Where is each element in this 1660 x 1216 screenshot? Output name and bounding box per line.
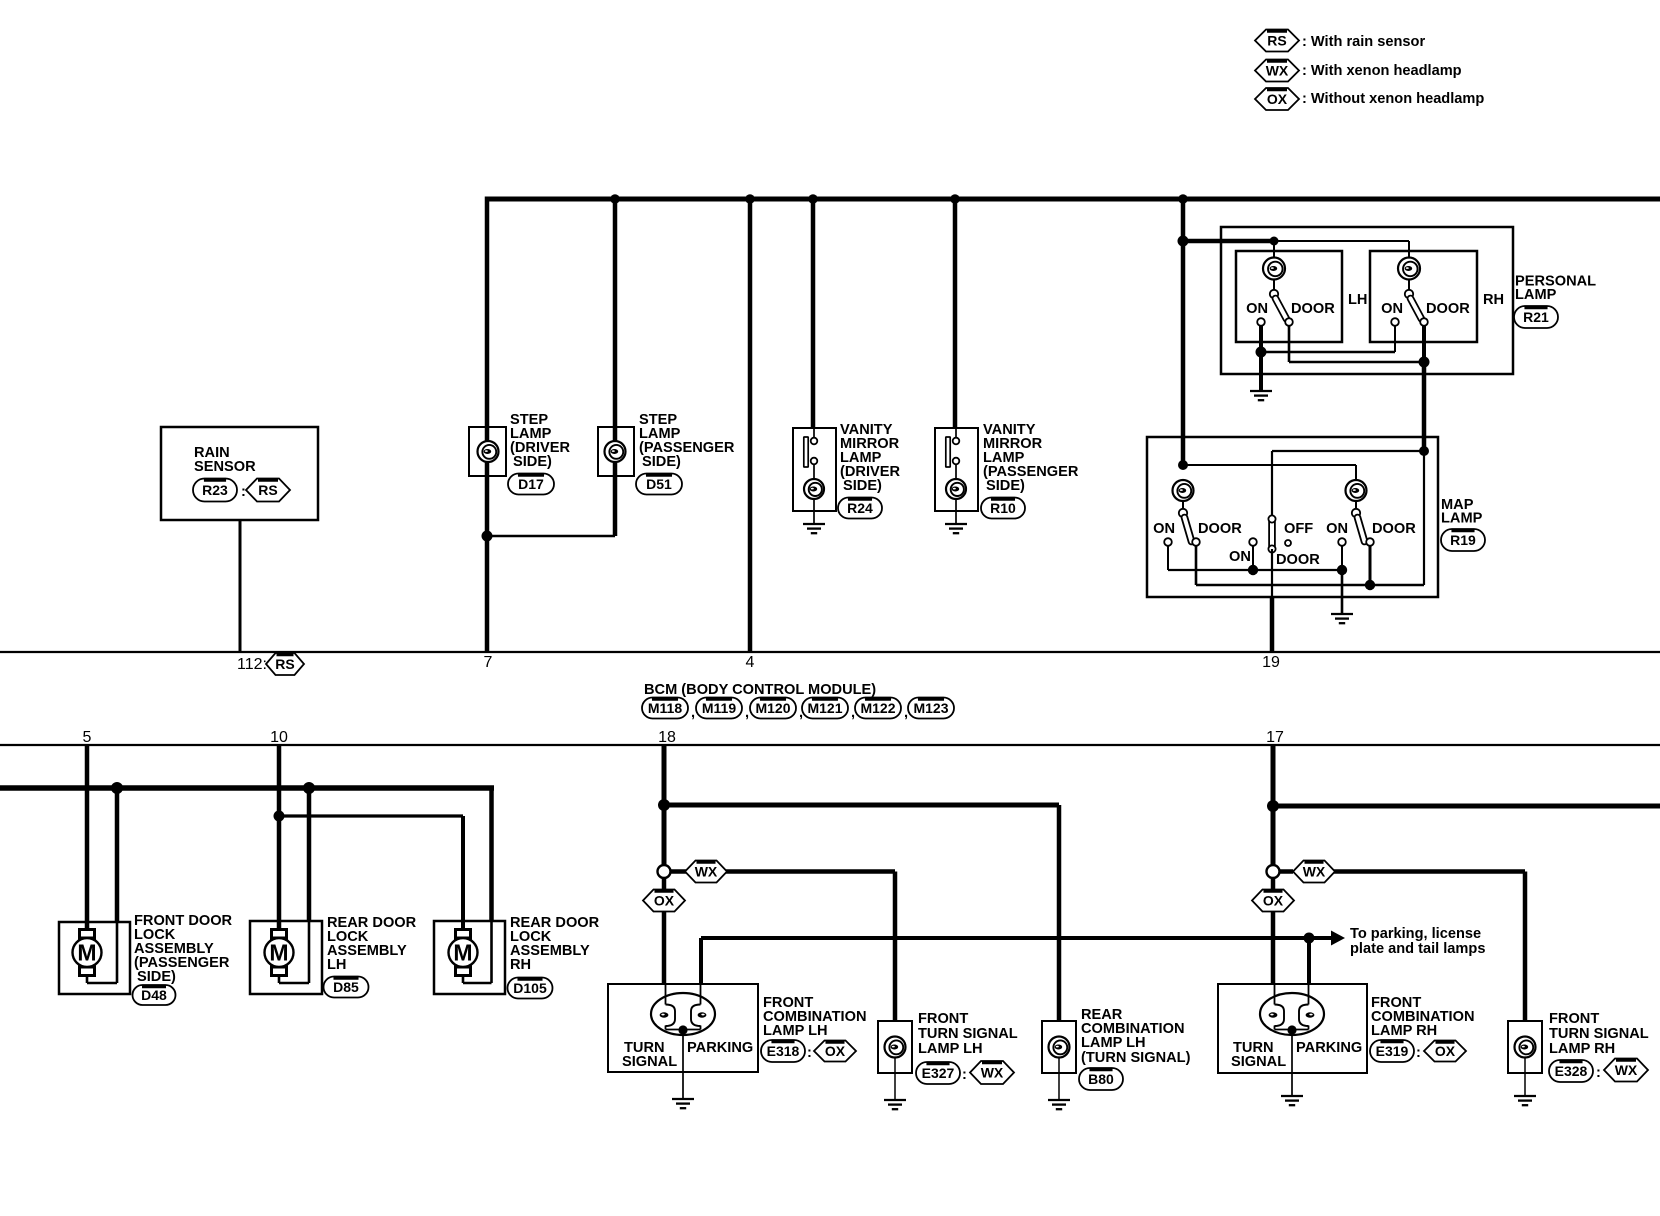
switch bar R10 [946,437,950,467]
wire personal ON tie [1259,326,1263,353]
svg-text:ON: ON [1153,521,1175,537]
junction D17/D51 [482,531,493,542]
junction map feed [1178,460,1188,470]
wire to parking line [701,936,1331,940]
svg-text:OX: OX [1435,1043,1456,1059]
svg-text:LAMP LH: LAMP LH [1081,1035,1146,1051]
junction top bus at R24 [808,194,818,204]
svg-text:OX: OX [825,1043,846,1059]
wire feed to personal lamp [1183,239,1274,244]
svg-text:: With rain sensor: : With rain sensor [1302,34,1425,50]
connector D85 [324,977,369,998]
lamp D17 [478,441,499,462]
wire map lamp top link [1183,464,1356,466]
svg-text:TURN SIGNAL: TURN SIGNAL [918,1026,1018,1042]
vanity mirror lamp passenger box [935,428,978,511]
wire E327 ground [894,1057,896,1100]
personal lamp outer box [1221,227,1513,374]
legend tag RS [1255,30,1299,52]
svg-text:: With xenon headlamp: : With xenon headlamp [1302,63,1462,79]
ground R10 [945,523,967,525]
ground E327 [884,1099,906,1101]
svg-text:D48: D48 [141,987,167,1003]
wire step lamp driver feed / BCM pin 7 [485,197,490,653]
svg-text:M: M [77,940,96,966]
wire pin 17 down [1271,745,1276,866]
connector R19 [1441,529,1485,551]
wire thick distribution line [0,785,494,791]
ground E319 [1281,1095,1303,1097]
switch terminal RH DOOR [1420,318,1428,326]
BCM bus line upper [0,651,1660,653]
wire E319 turn lead [1274,983,1276,1005]
wire BCM pin 4 feed [748,197,753,653]
svg-text:19: 19 [1262,654,1280,671]
junction top bus at R10 [950,194,960,204]
svg-text:LAMP LH: LAMP LH [763,1023,828,1039]
wire R10 entry [955,427,957,438]
lamp E328 [1515,1037,1536,1058]
ground R24 [803,523,825,525]
front door lock box D48 [59,922,130,994]
svg-text:BCM (BODY CONTROL MODULE): BCM (BODY CONTROL MODULE) [644,682,876,698]
switch terminals R24 [811,438,818,445]
tag OX E319 [1424,1041,1466,1062]
wire R24 to ground [813,499,815,524]
junction personal LH lamp top [1270,237,1279,246]
BCM bus line lower [0,744,1660,746]
switch lever map LH [1185,518,1192,542]
personal lamp LH box [1236,251,1342,342]
wire WX branch LH [671,869,687,874]
svg-text:SIDE): SIDE) [986,478,1025,494]
wire pin 5 to D48 [85,745,90,931]
svg-text:LAMP LH: LAMP LH [918,1041,983,1057]
svg-text:WX: WX [981,1065,1004,1081]
front combination lamp RH box [1218,984,1367,1073]
wire dist corner to D105 return [489,786,494,923]
wire D105 loop [462,976,465,984]
bulb E318 [651,993,715,1035]
step lamp driver side box [469,427,506,476]
connector E327 [916,1062,960,1084]
wire map RH lamp to switch [1355,500,1357,510]
svg-text:M118: M118 [648,700,682,716]
vanity mirror lamp driver box [793,428,836,511]
legend tag OX [1255,88,1299,110]
svg-text:FRONT: FRONT [918,1011,968,1027]
wire personal DOOR bus down [1422,362,1427,451]
connector B80 [1079,1068,1123,1090]
wire personal DOOR tie [1288,326,1291,363]
junction pin18 to B80 [658,799,670,811]
svg-text:(TURN SIGNAL): (TURN SIGNAL) [1081,1050,1191,1066]
wire WX branch RH [1280,869,1294,874]
wire personal/map lamp feed [1181,197,1186,466]
svg-text:WX: WX [1615,1062,1638,1078]
svg-text:E327: E327 [922,1065,955,1081]
filament E318 parking [691,1005,701,1027]
svg-text:SENSOR: SENSOR [194,459,256,475]
svg-text::: : [962,1067,967,1083]
svg-text:,: , [745,705,749,721]
junction top bus at D51 [610,194,620,204]
wire rain sensor to BCM pin 112 [239,520,242,652]
svg-text:SIDE): SIDE) [137,969,176,985]
junction E319 common [1287,1025,1296,1034]
connector D51 [636,474,682,495]
svg-text:RS: RS [1267,33,1286,49]
switch pivot map LH [1179,509,1187,517]
filament E319 turn [1275,1005,1285,1027]
wire WX branch RH b [1334,869,1525,874]
wire OX branch LH [662,878,667,891]
svg-text:D17: D17 [518,476,544,492]
junction map ON tie b [1337,565,1347,575]
svg-text:112:: 112: [237,656,267,673]
ground personal lamp [1250,390,1272,392]
tag RS pin 112 [266,653,304,675]
wire map ground [1341,570,1344,614]
tag RS rain sensor [246,479,290,502]
motor D105 [456,930,471,939]
switch terminal map RH ON [1338,538,1346,546]
svg-text:M119: M119 [702,700,736,716]
svg-text:LH: LH [327,957,346,973]
svg-text:plate and tail lamps: plate and tail lamps [1350,941,1485,957]
connector R24 [838,498,882,519]
svg-text:DOOR: DOOR [1291,301,1335,317]
junction dist to D48 [111,782,123,794]
wire E318 parking lead [700,983,702,1005]
wire dist to D85 return [307,785,312,922]
lamp E327 [885,1037,906,1058]
svg-text:17: 17 [1266,729,1284,746]
svg-text:D85: D85 [333,979,359,995]
wire LH lamp to switch [1273,279,1275,291]
wire R10 internal [955,464,957,479]
connector D17 [508,474,554,495]
junction parking RH [1304,933,1315,944]
svg-text:5: 5 [83,729,92,746]
wire branch to D105 [279,814,463,817]
svg-text:ON: ON [1381,301,1403,317]
lamp B80 [1049,1037,1070,1058]
svg-text:ON: ON [1246,301,1268,317]
svg-text:B80: B80 [1088,1071,1114,1087]
wire map LH lamp to switch [1182,500,1184,510]
arrow to parking [1331,931,1345,946]
svg-text:M120: M120 [755,700,790,716]
lamp map LH [1173,480,1194,501]
wire map ON tie [1167,546,1169,571]
switch terminal LH ON [1257,318,1265,326]
tag WX E328 [1604,1059,1648,1082]
wire top feed bus [487,197,1660,202]
tag WX LH [685,861,727,883]
connector E319 [1370,1040,1414,1062]
lamp D51 [605,441,626,462]
svg-text:LAMP: LAMP [1441,511,1483,527]
svg-text:D51: D51 [646,476,672,492]
wire pin 18 down [662,745,667,866]
wire R24 internal [813,464,815,479]
wire DOOR bus lower [1423,451,1425,585]
connector R21 [1514,306,1558,328]
switch terminal map LH DOOR [1192,538,1200,546]
ground E318 [672,1098,694,1100]
switch terminal map RH DOOR [1366,538,1374,546]
tag OX RH [1252,890,1294,912]
wire E328 ground [1524,1057,1526,1096]
lamp R10 [946,479,966,499]
wire center switch common [1272,450,1424,452]
connector D48 [133,985,176,1005]
svg-text:FRONT: FRONT [1549,1011,1599,1027]
wire center switch to pin 19 [1271,549,1273,598]
svg-text:,: , [691,705,695,721]
tag OX LH [643,890,685,912]
switch lever RH [1411,299,1422,320]
junction personal DOOR [1419,357,1430,368]
svg-text::: : [1596,1065,1601,1081]
wire D85 loop [278,976,281,984]
svg-text:SIDE): SIDE) [843,478,882,494]
junction pin10 branch [274,811,285,822]
rear door lock box D85 [250,921,322,994]
tag WX RH [1293,861,1335,883]
svg-text:LAMP RH: LAMP RH [1549,1041,1615,1057]
svg-text:DOOR: DOOR [1198,521,1242,537]
wire OX branch RH [1271,878,1276,891]
wire E318 parking drop [699,938,703,985]
wire map DOOR tie [1195,546,1198,586]
svg-text:To parking, license: To parking, license [1350,926,1481,942]
svg-text:RS: RS [275,656,294,672]
lamp personal RH drop [1408,241,1410,258]
motor D48 [80,930,95,939]
switch terminal map LH ON [1164,538,1172,546]
switch pivot RH [1405,290,1413,298]
svg-text:LAMP RH: LAMP RH [1371,1023,1437,1039]
junction map ON tie a [1248,565,1258,575]
bulb E319 [1260,993,1324,1035]
svg-text:RH: RH [1483,292,1504,308]
svg-text:M123: M123 [913,700,948,716]
wire RH lamp to switch [1408,279,1410,291]
junction E318 common [678,1025,687,1034]
rear door lock box D105 [434,921,505,994]
wire step lamp passenger feed [613,197,618,537]
wire E318 ground [682,1030,684,1099]
connector M123 [908,698,954,719]
rear combination lamp LH box [1042,1021,1076,1073]
wire personal ground [1259,352,1263,391]
switch lever map RH [1358,518,1365,542]
svg-text:: Without xenon headlamp: : Without xenon headlamp [1302,91,1484,107]
wire D48 loop [86,976,89,984]
wire center ON drop [1252,546,1254,571]
junction pin17 branch [1267,800,1279,812]
svg-text:RH: RH [510,957,531,973]
svg-text:WX: WX [695,864,718,880]
wire R24 entry [813,427,815,438]
filament E318 turn [666,1005,676,1027]
svg-text:SIDE): SIDE) [642,454,681,470]
connector D105 [508,978,553,999]
switch terminal map center ON [1249,538,1257,546]
junction feed to personal lamp [1178,236,1189,247]
wire to rear combination lamp LH [664,803,1059,808]
wire vanity mirror passenger feed [953,197,958,429]
svg-text:DOOR: DOOR [1426,301,1470,317]
node WX/OX split RH [1267,865,1280,878]
svg-text:SIGNAL: SIGNAL [1231,1054,1286,1070]
svg-text::: : [807,1045,812,1061]
wire E319 ground [1291,1030,1293,1096]
svg-text:TURN SIGNAL: TURN SIGNAL [1549,1026,1649,1042]
svg-text:OX: OX [1267,91,1288,107]
svg-text:7: 7 [484,654,493,671]
svg-text:DOOR: DOOR [1372,521,1416,537]
connector M119 [696,698,742,719]
svg-text::: : [241,484,246,500]
svg-text:E318: E318 [767,1043,800,1059]
connector M122 [855,698,901,719]
ground B80 [1048,1099,1070,1101]
node WX/OX split LH [658,865,671,878]
ground map lamp [1331,613,1353,615]
filament E319 parking [1299,1005,1309,1027]
switch terminals R10 [953,438,960,445]
wire pin17 branch right [1273,804,1660,809]
switch terminal LH DOOR [1285,318,1293,326]
svg-text:DOOR: DOOR [1276,552,1320,568]
switch lever LH [1276,299,1287,320]
svg-text:M: M [453,940,472,966]
svg-text:OX: OX [654,893,675,909]
step lamp passenger side box [598,427,634,476]
map lamp box [1147,437,1438,597]
connector M120 [750,698,796,719]
junction top bus at pin4 [745,194,755,204]
svg-text:10: 10 [270,729,288,746]
wire vanity mirror driver feed [811,197,816,429]
svg-text:SIDE): SIDE) [513,454,552,470]
wire E319 common [1274,1026,1276,1030]
svg-text:R19: R19 [1450,532,1476,548]
wire pin 10 to D85 [277,745,282,933]
svg-text:SIGNAL: SIGNAL [622,1054,677,1070]
svg-text::: : [1416,1045,1421,1061]
switch lever map center [1268,521,1276,548]
svg-text:R21: R21 [1523,309,1549,325]
svg-text:M121: M121 [807,700,842,716]
svg-text:4: 4 [746,654,755,671]
wire personal LH lamp drop [1273,241,1275,258]
switch terminal map center OFF [1285,540,1291,546]
wire D51 to D17 link [487,535,615,538]
junction dist to D85 [303,782,315,794]
svg-text:OX: OX [1263,893,1284,909]
wire E319 parking drop [1307,938,1311,985]
svg-text:R23: R23 [202,482,228,498]
svg-text:M122: M122 [860,700,895,716]
front combination lamp LH box [608,984,758,1072]
wire E318 common [665,1026,667,1030]
wire E319 parking lead [1308,983,1310,1005]
svg-text:D105: D105 [513,980,547,996]
svg-text:ON: ON [1326,521,1348,537]
motor D85 [272,930,287,939]
tag WX E327 [970,1061,1014,1084]
lamp personal LH [1263,258,1285,280]
svg-text:R24: R24 [847,500,873,516]
wire personal lamp top link [1274,240,1409,242]
connector M118 [642,698,688,719]
junction map DOOR tie [1365,580,1375,590]
connector R23 [193,479,237,502]
svg-text:LH: LH [1348,292,1367,308]
connector M121 [802,698,848,719]
junction top bus at personal lamp [1178,194,1188,204]
svg-text:18: 18 [658,729,676,746]
svg-text:PARKING: PARKING [1296,1040,1362,1056]
tag OX E318 [814,1041,856,1062]
svg-text:WX: WX [1266,63,1289,79]
connector E328 [1549,1060,1593,1082]
junction personal ON/ground [1256,347,1267,358]
wire E318 turn lead [665,983,667,1005]
svg-text:M: M [269,940,288,966]
legend tag WX [1255,60,1299,82]
svg-text:R10: R10 [990,500,1016,516]
wire R10 to ground [955,499,957,524]
svg-text:WX: WX [1303,864,1326,880]
switch bar R24 [804,437,808,467]
switch terminal RH ON [1391,318,1399,326]
rain sensor box [161,427,318,520]
connector R10 [981,498,1025,519]
svg-text:LAMP: LAMP [1515,287,1557,303]
lamp map RH [1346,480,1367,501]
connector E318 [761,1040,805,1062]
wire dist to D48 return [115,785,120,922]
svg-text:RS: RS [258,482,277,498]
svg-text:PARKING: PARKING [687,1040,753,1056]
svg-text:E319: E319 [1376,1043,1409,1059]
svg-text:E328: E328 [1555,1063,1588,1079]
wire WX branch LH b [726,869,895,874]
junction DOOR bus to center switch [1419,446,1429,456]
svg-text:OFF: OFF [1284,521,1313,537]
lamp personal RH [1398,258,1420,280]
front turn signal RH box [1508,1021,1542,1073]
svg-text:ON: ON [1229,549,1251,565]
front turn signal LH box [878,1021,912,1073]
lamp R24 [804,479,824,499]
switch pivot map RH [1352,509,1360,517]
ground E328 [1514,1095,1536,1097]
personal lamp RH box [1370,251,1477,342]
switch pivot LH [1270,290,1278,298]
wire B80 ground [1058,1057,1060,1100]
